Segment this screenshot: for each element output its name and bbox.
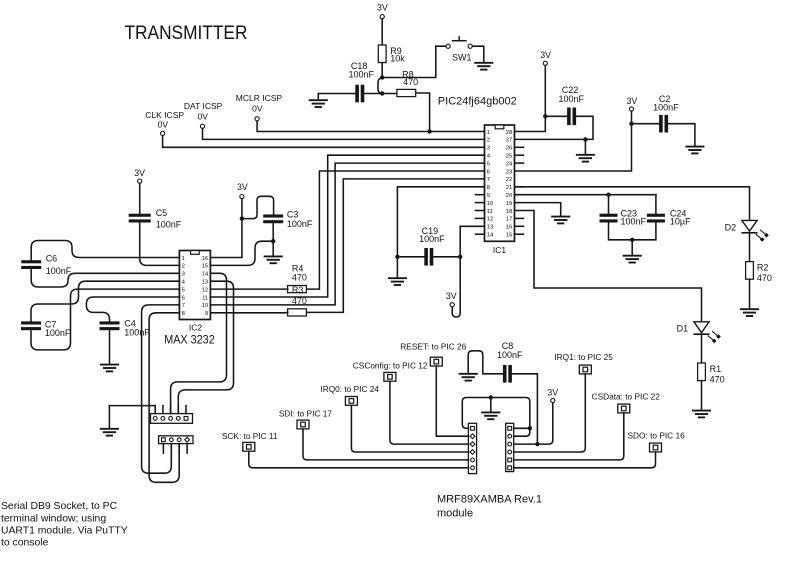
svg-text:SCK: to PIC 11: SCK: to PIC 11 <box>222 431 278 441</box>
svg-text:IRQ1: to PIC 25: IRQ1: to PIC 25 <box>554 352 613 362</box>
svg-text:D2: D2 <box>725 222 737 232</box>
svg-text:16: 16 <box>202 256 209 262</box>
svg-text:2: 2 <box>182 264 185 270</box>
svg-text:MAX 3232: MAX 3232 <box>164 334 215 347</box>
svg-text:16: 16 <box>506 225 513 231</box>
svg-text:0V: 0V <box>158 120 169 130</box>
svg-text:9: 9 <box>205 311 208 317</box>
svg-text:R3: R3 <box>292 285 304 295</box>
svg-text:2: 2 <box>487 138 490 144</box>
svg-text:IC2: IC2 <box>189 323 203 333</box>
svg-text:100nF: 100nF <box>653 103 679 113</box>
svg-text:100nF: 100nF <box>559 94 585 104</box>
svg-text:470: 470 <box>710 374 725 384</box>
svg-text:C5: C5 <box>156 208 168 218</box>
svg-text:14: 14 <box>487 233 494 239</box>
svg-text:0V: 0V <box>198 112 209 122</box>
svg-text:10µF: 10µF <box>670 217 691 227</box>
svg-text:to console: to console <box>1 538 49 549</box>
svg-text:100nF: 100nF <box>287 219 313 229</box>
svg-text:20: 20 <box>506 193 513 199</box>
svg-text:SDI: to PIC 17: SDI: to PIC 17 <box>279 408 332 418</box>
svg-text:1: 1 <box>182 256 185 262</box>
svg-text:9: 9 <box>487 193 490 199</box>
svg-text:module: module <box>437 508 473 520</box>
svg-text:15: 15 <box>506 233 513 239</box>
svg-text:22: 22 <box>506 177 513 183</box>
svg-text:CSConfig: to PIC 12: CSConfig: to PIC 12 <box>353 360 428 370</box>
svg-text:26: 26 <box>506 146 513 152</box>
svg-text:27: 27 <box>506 138 513 144</box>
svg-text:100nF: 100nF <box>349 69 375 79</box>
svg-text:28: 28 <box>506 130 513 136</box>
svg-text:13: 13 <box>202 280 209 286</box>
svg-text:3V: 3V <box>627 96 638 106</box>
svg-text:D1: D1 <box>677 324 689 334</box>
svg-text:25: 25 <box>506 154 513 160</box>
svg-text:IRQ0: to PIC 24: IRQ0: to PIC 24 <box>320 384 379 394</box>
svg-text:470: 470 <box>403 77 418 87</box>
svg-text:R2: R2 <box>757 263 769 273</box>
svg-text:PIC24fj64gb002: PIC24fj64gb002 <box>438 95 517 107</box>
svg-text:10: 10 <box>487 201 494 207</box>
svg-text:21: 21 <box>506 185 513 191</box>
svg-text:17: 17 <box>506 217 513 223</box>
svg-text:100nF: 100nF <box>124 327 150 337</box>
svg-text:3V: 3V <box>540 50 551 60</box>
svg-text:SDO: to PIC 16: SDO: to PIC 16 <box>628 430 686 440</box>
svg-text:470: 470 <box>292 296 307 306</box>
svg-text:7: 7 <box>487 177 490 183</box>
svg-text:3V: 3V <box>237 182 248 192</box>
svg-text:7: 7 <box>182 303 185 309</box>
svg-text:100nF: 100nF <box>45 328 71 338</box>
svg-text:18: 18 <box>506 209 513 215</box>
svg-text:19: 19 <box>506 201 513 207</box>
svg-text:Serial DB9 Socket, to PC: Serial DB9 Socket, to PC <box>1 501 118 512</box>
svg-text:470: 470 <box>757 273 772 283</box>
svg-text:15: 15 <box>202 264 209 270</box>
svg-text:MCLR ICSP: MCLR ICSP <box>236 93 283 103</box>
svg-text:CSData: to PIC 22: CSData: to PIC 22 <box>592 392 661 402</box>
svg-text:23: 23 <box>506 169 513 175</box>
svg-text:0V: 0V <box>252 104 263 114</box>
svg-text:14: 14 <box>202 272 209 278</box>
svg-text:12: 12 <box>487 217 494 223</box>
svg-text:100nF: 100nF <box>497 350 523 360</box>
svg-text:RESET: to PIC 26: RESET: to PIC 26 <box>400 341 466 351</box>
svg-text:11: 11 <box>202 295 208 301</box>
svg-text:SW1: SW1 <box>452 52 472 62</box>
svg-text:3V: 3V <box>446 291 457 301</box>
svg-text:3V: 3V <box>134 168 145 178</box>
svg-text:terminal window; using: terminal window; using <box>1 513 106 524</box>
svg-text:C6: C6 <box>46 254 58 264</box>
svg-text:3V: 3V <box>377 2 388 12</box>
svg-text:12: 12 <box>202 287 209 293</box>
svg-text:C3: C3 <box>287 210 299 220</box>
svg-text:24: 24 <box>506 161 513 167</box>
svg-text:100nF: 100nF <box>46 266 72 276</box>
svg-text:UART1 module. Via PuTTY: UART1 module. Via PuTTY <box>1 525 128 536</box>
svg-text:R1: R1 <box>710 364 722 374</box>
svg-text:11: 11 <box>487 209 493 215</box>
svg-text:100nF: 100nF <box>621 217 647 227</box>
svg-text:3V: 3V <box>547 388 558 398</box>
svg-text:100nF: 100nF <box>156 220 182 230</box>
svg-text:13: 13 <box>487 225 494 231</box>
svg-text:470: 470 <box>292 273 307 283</box>
svg-text:IC1: IC1 <box>493 245 507 255</box>
svg-text:MRF89XAMBA Rev.1: MRF89XAMBA Rev.1 <box>437 493 542 505</box>
svg-text:DAT ICSP: DAT ICSP <box>184 101 223 111</box>
svg-text:1: 1 <box>487 130 490 136</box>
svg-text:10: 10 <box>202 303 209 309</box>
svg-text:10k: 10k <box>390 54 405 64</box>
svg-text:TRANSMITTER: TRANSMITTER <box>125 21 248 43</box>
svg-text:100nF: 100nF <box>419 234 445 244</box>
